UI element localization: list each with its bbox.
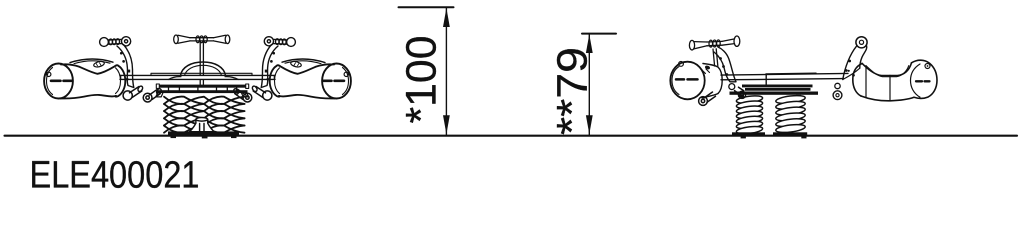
cap bolt xyxy=(47,72,51,76)
side seat (profile) xyxy=(853,60,937,101)
seat left end cap xyxy=(44,64,73,99)
seat right rim xyxy=(115,66,125,97)
saddle band xyxy=(70,59,113,63)
center dome xyxy=(181,62,226,75)
dim 79 top tick xyxy=(582,33,616,35)
end seat barrel (end-on) xyxy=(670,62,722,100)
dim 79 arrowheads xyxy=(586,34,593,53)
center handlebar stem xyxy=(200,42,203,84)
footrest peg A xyxy=(123,85,143,100)
seat board (dark) xyxy=(742,85,813,88)
main beam xyxy=(721,73,848,84)
svg-text:*100: *100 xyxy=(398,36,446,124)
seat barrel bottom edge xyxy=(60,95,116,99)
beam end pulleys xyxy=(835,83,840,88)
support bracket xyxy=(117,45,134,88)
dim 79 line xyxy=(588,34,590,135)
svg-text:**79: **79 xyxy=(549,47,597,135)
left rider unit xyxy=(44,37,162,102)
side seat slot xyxy=(916,80,930,82)
dome base flange xyxy=(169,77,239,80)
seesaw plank xyxy=(120,75,275,79)
side bracket xyxy=(714,47,736,82)
end seat footrest xyxy=(699,92,716,105)
right spring base plate xyxy=(773,132,807,135)
spring clamp bar xyxy=(157,90,248,93)
main double spring (lattice) xyxy=(164,97,245,133)
side seat bolt xyxy=(925,64,930,69)
plank under-plate xyxy=(159,85,246,88)
dim 100 arrowheads xyxy=(443,8,450,27)
left spring base plate xyxy=(732,132,765,135)
side handlebar xyxy=(689,36,739,50)
saddle tube end xyxy=(93,60,105,67)
board clamp plate xyxy=(745,88,811,91)
dim 100 top tick xyxy=(399,6,454,8)
under-plate bolt ticks xyxy=(169,88,237,91)
rider handlebar xyxy=(100,37,131,47)
seat clamp detail xyxy=(704,65,710,70)
base plate anchor feet xyxy=(171,135,177,138)
right coil spring xyxy=(775,94,805,134)
bracket bolts xyxy=(848,60,851,63)
ground line xyxy=(5,135,1018,137)
stem clamp ring xyxy=(729,84,735,90)
base plate xyxy=(168,131,239,135)
plank top mat strip xyxy=(151,73,252,75)
dim 100 line xyxy=(445,7,447,135)
cap slot xyxy=(51,80,72,83)
right rider unit (mirror) xyxy=(233,37,351,102)
springs top plate xyxy=(730,92,819,95)
svg-text:ELE400021: ELE400021 xyxy=(30,155,200,194)
side footrest peg xyxy=(735,87,746,98)
bracket top ring xyxy=(856,37,867,48)
right bracket xyxy=(843,43,867,80)
spring bottom bell fitting xyxy=(190,118,214,132)
left coil spring xyxy=(736,95,763,135)
footrest peg B xyxy=(143,88,162,102)
side handlebar stem xyxy=(713,49,718,66)
seat barrel top edge xyxy=(61,64,119,74)
center T-handlebar xyxy=(174,35,230,44)
